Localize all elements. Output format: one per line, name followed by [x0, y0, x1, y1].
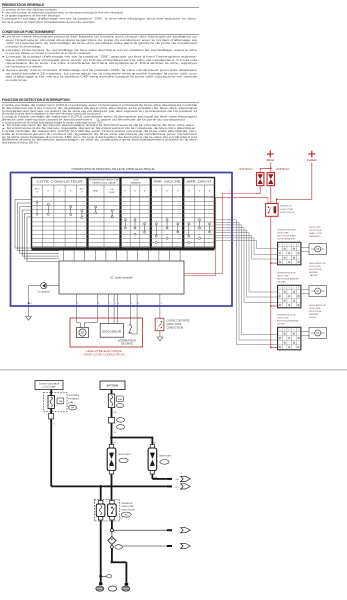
window motor regulator rear left	[301, 262, 327, 297]
svg-text:et ensuite fermée.: et ensuite fermée.	[6, 78, 28, 82]
svg-text:AVANT (COTE: AVANT (COTE	[309, 232, 322, 235]
fusible 40A	[108, 394, 123, 408]
svg-text:Direct: Direct	[265, 158, 274, 162]
svg-text:1: 1	[115, 303, 116, 305]
svg-text:H: H	[279, 245, 280, 247]
table group headers	[37, 180, 213, 185]
section separator line	[0, 369, 347, 371]
svg-text:VERR.: VERR.	[109, 192, 115, 194]
svg-text:H: H	[289, 288, 290, 290]
svg-text:H: H	[298, 330, 299, 332]
svg-text:ELECTRIQUE: ELECTRIQUE	[309, 311, 322, 313]
connector 3 below fuse block	[49, 409, 54, 420]
svg-text:H: H	[279, 288, 280, 290]
svg-text:7: 7	[109, 303, 110, 305]
svg-text:sur ON ou START: sur ON ou START	[42, 386, 57, 389]
svg-text:B: B	[284, 330, 285, 332]
svg-text:5: 5	[229, 192, 230, 194]
auxiliary switch rear right	[277, 315, 301, 350]
svg-text:tion de la position de l’inter: tion de la position de l’interrupteur pr…	[2, 20, 95, 24]
svg-text:ECLAIRAGE: ECLAIRAGE	[38, 290, 51, 293]
wires from table bottom to UC box	[64, 250, 181, 261]
svg-text:LEVE-VITRE ELECTRIQUE: LEVE-VITRE ELECTRIQUE	[86, 350, 122, 353]
svg-text:M3: M3	[71, 408, 74, 410]
wire to breaker 1	[112, 438, 116, 445]
svg-text:RUPTEUR 2: RUPTEUR 2	[160, 456, 173, 458]
svg-text:LEVE-VITRE: LEVE-VITRE	[122, 506, 135, 508]
svg-text:VERROUILLAGE: VERROUILLAGE	[92, 181, 117, 184]
pin 15 label at enclosure bottom	[29, 303, 32, 305]
svg-text:INTERRUPTEUR: INTERRUPTEUR	[118, 340, 136, 342]
svg-text:40A: 40A	[118, 398, 122, 401]
harness connector battery feed	[108, 418, 124, 430]
svg-text:4: 4	[161, 303, 162, 305]
svg-text:Contact: Contact	[307, 158, 317, 162]
wire from lamp to UC box	[47, 285, 59, 287]
svg-text:CONDITION DE FONCTIONNEMENT: CONDITION DE FONCTIONNEMENT	[2, 30, 55, 34]
svg-text:(COTE PASSAGER): (COTE PASSAGER)	[277, 237, 295, 240]
fuse block J/B dashed box	[44, 393, 68, 412]
auxiliary switch front passenger	[277, 230, 301, 265]
svg-text:B: B	[284, 245, 285, 247]
svg-text:ELECTRIQUE ARRIERE: ELECTRIQUE ARRIERE	[277, 319, 299, 322]
svg-text:H: H	[279, 330, 280, 332]
text section heading FONCTION DE DETECTION D'INTERRUPTION	[2, 98, 199, 103]
arrow continuation W/Y	[167, 484, 190, 489]
svg-text:LEVE-VITRE: LEVE-VITRE	[309, 227, 321, 229]
svg-text:UC (unité centrale): UC (unité centrale)	[110, 276, 133, 280]
ignition feed wire down	[51, 419, 55, 486]
svg-text:BOITIER A: BOITIER A	[69, 394, 80, 397]
svg-text:INTERRUPTEUR DE: INTERRUPTEUR DE	[277, 315, 296, 317]
svg-text:PASSAGER: PASSAGER	[130, 181, 141, 184]
svg-text:ARR. DROIT: ARR. DROIT	[187, 180, 213, 183]
svg-text:1: 1	[77, 303, 78, 305]
arrow continuation lower	[167, 543, 190, 548]
wire with label W/L	[112, 408, 117, 418]
table contact rows grid	[32, 197, 215, 246]
svg-text:LEVE-VITRE: LEVE-VITRE	[280, 209, 293, 211]
svg-text:ELECTRIQUE AVANT: ELECTRIQUE AVANT	[277, 234, 297, 237]
UC output wires to encoder and door contact with pin numbers	[76, 294, 162, 318]
wire battery to fuse 40A	[111, 390, 113, 395]
diamond connector symbol	[108, 532, 116, 545]
wire bundle from table left side	[15, 200, 59, 262]
ground symbol below door switch	[157, 331, 163, 341]
svg-text:RUPTEUR 2: RUPTEUR 2	[239, 169, 253, 171]
arrow continuation W/B	[167, 476, 190, 481]
wire to breaker 2	[152, 438, 156, 445]
svg-text:tact d’allumage a été mis sur: tact d’allumage a été mis sur la positio…	[6, 75, 199, 79]
svg-text:B: B	[293, 245, 294, 247]
label boitier a fusibles	[69, 394, 80, 410]
driver window motor	[76, 318, 97, 338]
svg-text:B: B	[293, 288, 294, 290]
svg-text:LEVE-VITRE: LEVE-VITRE	[277, 317, 289, 319]
fuse 10A in fuse block	[48, 396, 64, 409]
svg-text:RUPTEUR 1: RUPTEUR 1	[277, 169, 291, 171]
wire breaker 1 output to relay	[270, 186, 272, 204]
svg-text:8: 8	[138, 303, 139, 305]
svg-text:LEVE-VITRE: LEVE-VITRE	[309, 308, 321, 310]
svg-text:sera baissée d’environ 150 mm.: sera baissée d’environ 150 mm.	[2, 141, 39, 145]
svg-text:DE LIMITE: DE LIMITE	[121, 344, 133, 346]
ignition feed horizontal to arrow W/Y	[51, 485, 179, 489]
svg-text:LEVE-VITRE: LEVE-VITRE	[309, 266, 321, 268]
text section heading PRESENTATION GENERALE	[2, 3, 199, 8]
svg-text:RUPTEUR 1: RUPTEUR 1	[119, 454, 132, 456]
svg-text:W/L: W/L	[114, 412, 117, 414]
window motor regulator front passenger	[301, 227, 327, 255]
svg-text:GAUCHE: GAUCHE	[277, 280, 286, 283]
svg-text:REGULATEUR DE: REGULATEUR DE	[309, 304, 326, 307]
svg-text:10A: 10A	[59, 400, 63, 403]
svg-text:H: H	[289, 245, 290, 247]
wire to junction	[112, 423, 117, 438]
label leve-vitre electrique avant cote conducteur	[84, 350, 125, 357]
svg-text:H: H	[289, 330, 290, 332]
battery positive terminal Direct	[265, 151, 274, 163]
circuit breaker 1 (bottom schematic)	[107, 445, 131, 475]
circuit breaker RUPTEUR 1	[267, 169, 290, 186]
wire from Contact terminal to relay	[276, 163, 312, 204]
relay output right wire to splice circle	[110, 521, 166, 532]
wire down to ground bar	[111, 548, 127, 583]
auxiliary switch rear left	[277, 273, 301, 308]
svg-text:2: 2	[98, 303, 99, 305]
svg-text:ENCODEUR: ENCODEUR	[102, 329, 121, 333]
svg-text:LEVE-VITRE: LEVE-VITRE	[277, 275, 289, 277]
svg-text:4: 4	[118, 303, 119, 305]
ground E right	[122, 583, 130, 591]
svg-text:REGULATEUR DE: REGULATEUR DE	[309, 262, 326, 265]
paragraph fonction de detection d'interruption	[2, 103, 198, 145]
wire junction to relay coil	[100, 486, 102, 500]
svg-text:W/L: W/L	[114, 432, 117, 434]
wire from Direct terminal to breakers	[260, 163, 271, 173]
arrow continuation from relay output	[167, 528, 190, 533]
svg-text:1 5: 1 5	[228, 198, 231, 200]
svg-text:PASSAGER): PASSAGER)	[309, 235, 321, 238]
svg-text:DROITE: DROITE	[309, 317, 317, 319]
driver window regulator unit enclosure (red)	[70, 318, 143, 347]
text section heading CONDITION DE FONCTIONNEMENT	[2, 30, 199, 35]
svg-text:CONTACT D’ALLUMAGE: CONTACT D’ALLUMAGE	[39, 382, 60, 385]
svg-text:ELECTRIQUE: ELECTRIQUE	[280, 212, 295, 214]
svg-text:ARR. GAUCHE: ARR. GAUCHE	[154, 180, 182, 183]
svg-text:W/Y: W/Y	[175, 487, 179, 489]
svg-text:LEVE-VITRE: LEVE-VITRE	[277, 232, 289, 234]
svg-text:CONTACT DE PORTE: CONTACT DE PORTE	[167, 319, 190, 322]
svg-text:M: M	[81, 331, 84, 335]
svg-text:ARRIERE: ARRIERE	[309, 271, 318, 274]
svg-text:H: H	[298, 245, 299, 247]
table sub-column separators and labels	[35, 185, 211, 248]
red wires from UC box right side to power circuit	[184, 192, 268, 276]
ground middle (open)	[109, 586, 117, 591]
relay output left wire	[100, 521, 102, 577]
switch matrix table frame	[32, 178, 215, 251]
svg-text:ELECTRIQUE ARRIERE: ELECTRIQUE ARRIERE	[277, 277, 299, 280]
svg-text:PRESENTATION GENERALE: PRESENTATION GENERALE	[2, 3, 44, 7]
svg-text:VERR.: VERR.	[93, 191, 99, 193]
grey wires from table right side to auxiliary switches	[215, 220, 278, 345]
svg-text:7: 7	[228, 233, 229, 235]
svg-text:M4: M4	[125, 515, 128, 517]
window motor regulator rear right	[301, 304, 327, 339]
ground E left	[96, 586, 104, 591]
svg-text:INTERRUPTEUR DE: INTERRUPTEUR DE	[277, 273, 296, 275]
svg-text:g: g	[119, 406, 120, 408]
svg-text:GAUCHE: GAUCHE	[309, 274, 318, 277]
svg-text:FONCTION DE DETECTION D’INTERR: FONCTION DE DETECTION D’INTERRUPTION	[2, 98, 70, 102]
red supply wire down the auxiliary switch column	[270, 216, 278, 348]
circuit breaker 2 (bottom schematic)	[148, 445, 173, 475]
circuit breaker RUPTEUR 2	[239, 169, 263, 186]
encoder ENCODEUR	[100, 318, 123, 337]
UC central processing unit box	[59, 261, 184, 294]
svg-text:AUTO: AUTO	[80, 187, 85, 190]
svg-text:ARRIERE: ARRIERE	[309, 313, 318, 316]
svg-text:B: B	[293, 330, 294, 332]
svg-text:INTERRUPTEUR PRINCIPAL DE LEVE: INTERRUPTEUR PRINCIPAL DE LEVE-VITRE ELE…	[72, 167, 155, 171]
svg-text:RELAIS DE: RELAIS DE	[122, 502, 133, 505]
wire breaker 2 output to main switch	[256, 186, 260, 194]
svg-text:G: G	[53, 424, 55, 426]
svg-text:COTE CONDUCTEUR: COTE CONDUCTEUR	[37, 181, 84, 183]
wire from lamp to ground below box	[28, 286, 41, 317]
breaker 1 output down to relay	[111, 474, 113, 501]
svg-text:RELAIS DE: RELAIS DE	[280, 205, 292, 208]
wire ignition to fuse	[50, 390, 52, 396]
svg-text:BATTERIE: BATTERIE	[107, 384, 119, 387]
ground symbol below lamp wire	[26, 317, 32, 321]
svg-text:COTE: COTE	[133, 180, 139, 182]
svg-text:DROITE: DROITE	[277, 323, 285, 325]
svg-text:1 5: 1 5	[29, 303, 32, 305]
switch contact circles	[36, 201, 210, 244]
connector circle and label on output wire	[111, 545, 167, 549]
junction splice battery feed	[110, 436, 153, 439]
paragraph presentation generale	[2, 7, 197, 23]
paragraph condition de fonctionnement	[2, 34, 198, 82]
svg-text:9: 9	[131, 303, 132, 305]
svg-text:AUTO: AUTO	[35, 187, 40, 190]
power window relay RELAIS DE LEVE-VITRE ELECTRIQUE	[266, 204, 295, 217]
svg-text:B: B	[284, 288, 285, 290]
svg-text:INTERRUPTEUR DE: INTERRUPTEUR DE	[90, 180, 120, 182]
main switch unit enclosure box (blue)	[11, 173, 233, 307]
svg-text:ELECTRIQUE: ELECTRIQUE	[122, 509, 136, 511]
svg-text:DE-: DE-	[111, 189, 115, 191]
battery box BATTERIE	[100, 381, 125, 390]
title interrupteur principal de leve-vitre electrique	[72, 167, 155, 171]
svg-text:AVANT (COTE CONDUCTEUR): AVANT (COTE CONDUCTEUR)	[84, 354, 125, 357]
svg-text:W/B: W/B	[175, 479, 179, 481]
svg-text:FUSIBLES: FUSIBLES	[69, 398, 80, 400]
breaker 2 output to arrow W/B	[152, 474, 179, 481]
svg-text:ELECTRIQUE: ELECTRIQUE	[309, 230, 322, 232]
svg-text:INTERRUPTEUR DE: INTERRUPTEUR DE	[277, 230, 296, 232]
power window relay dashed box (bottom schematic)	[94, 500, 135, 522]
svg-text:ELECTRIQUE: ELECTRIQUE	[309, 269, 322, 271]
limit switch INTERRUPTEUR DE LIMITE	[118, 318, 137, 346]
front door switch CONTACT DE PORTE	[155, 318, 190, 331]
svg-text:AVANT (COTE: AVANT (COTE	[167, 323, 182, 326]
lamp ECLAIRAGE symbol	[38, 283, 51, 294]
svg-text:CONDUCTEUR): CONDUCTEUR)	[167, 327, 184, 329]
left ground wire splice	[99, 575, 112, 586]
ignition positive terminal Contact	[307, 151, 317, 163]
svg-text:H: H	[298, 288, 299, 290]
svg-text:(J/B): (J/B)	[69, 402, 74, 404]
ignition switch box CONTACT D'ALLUMAGE	[35, 381, 63, 390]
